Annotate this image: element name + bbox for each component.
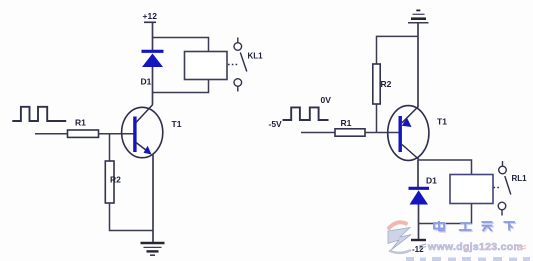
input square-wave symbol (left) — [12, 107, 66, 121]
wire: R1 to base node (left) — [99, 133, 136, 135]
transistor T1 (right, PNP) — [388, 106, 429, 161]
wire: top node to relay coil top (left) — [153, 38, 209, 52]
wire: anode node to relay coil bottom (left) — [153, 80, 209, 93]
wire: collector node down to diode cathode (right) — [417, 160, 419, 189]
wire: input to R1 (left) — [35, 133, 68, 135]
svg-text:R1: R1 — [75, 118, 86, 128]
svg-text:-12: -12 — [412, 245, 424, 254]
transistor T1 (left, NPN) — [122, 105, 163, 158]
watermark clipped bottom row — [406, 257, 530, 261]
watermark url www.dgjs123.com — [419, 241, 526, 253]
relay contact switch (left) — [234, 38, 247, 92]
svg-text:R2: R2 — [110, 175, 121, 185]
wire: ground down to emitter (right) — [417, 23, 419, 107]
resistor R1 (right) — [335, 129, 365, 136]
svg-text:T1: T1 — [172, 119, 182, 129]
svg-text:KL1: KL1 — [248, 52, 264, 61]
svg-text:R2: R2 — [381, 79, 392, 89]
resistor R1 (left) — [68, 130, 99, 137]
wire: diode anode down to -12 terminal (right) — [418, 205, 420, 241]
svg-text:RL1: RL1 — [512, 174, 528, 183]
watermark logo swoosh — [388, 222, 411, 253]
svg-text:T1: T1 — [437, 117, 447, 127]
wire: base node down to R2 (left) — [109, 134, 111, 161]
wire: emitter down to ground (left) — [152, 154, 154, 244]
power terminal +12 (left) — [143, 11, 158, 22]
svg-text:D1: D1 — [426, 176, 437, 186]
svg-text:www.dgjs123.com: www.dgjs123.com — [427, 241, 523, 253]
svg-text:D1: D1 — [141, 77, 152, 87]
wire: +12 down to diode cathode (left) — [152, 22, 154, 51]
diode D1 (left) — [142, 51, 164, 67]
svg-text:-5V: -5V — [269, 119, 283, 129]
wire: input to R1 (right) — [301, 132, 335, 134]
dotted actuator link (left relay) — [228, 64, 239, 66]
relay coil RL1 (right) — [450, 175, 493, 204]
wire: R1 to base (right) — [365, 132, 401, 134]
ground (left) — [141, 243, 165, 255]
power terminal -12 (right) — [411, 240, 426, 254]
ground (top right, inverted) — [408, 10, 429, 22]
dotted actuator link (right relay) — [494, 187, 502, 189]
svg-text:+12: +12 — [143, 11, 158, 21]
wire: R2 bottom to base node (right) — [376, 104, 378, 133]
watermark text 电工天下 (drawn strokes) — [434, 221, 516, 232]
wire: collector node to relay coil top (right) — [418, 160, 472, 175]
diode D1 (right) — [409, 188, 430, 204]
resistor R2 (right) — [373, 64, 380, 104]
wire: diode anode to collector node (left) — [152, 67, 154, 105]
relay contact switch (right) — [498, 161, 511, 216]
resistor R2 (left) — [105, 161, 114, 203]
input square-wave symbol (right) — [283, 107, 329, 120]
svg-text:0V: 0V — [321, 95, 332, 105]
wire: bottom node to relay coil bottom (right) — [419, 204, 472, 224]
svg-text:R1: R1 — [341, 118, 352, 128]
wire: ground node across to R2 top (right) — [377, 36, 419, 64]
wire: R2 bottom to emitter rail (left) — [110, 203, 154, 231]
relay coil RL1 (left) — [185, 52, 228, 80]
